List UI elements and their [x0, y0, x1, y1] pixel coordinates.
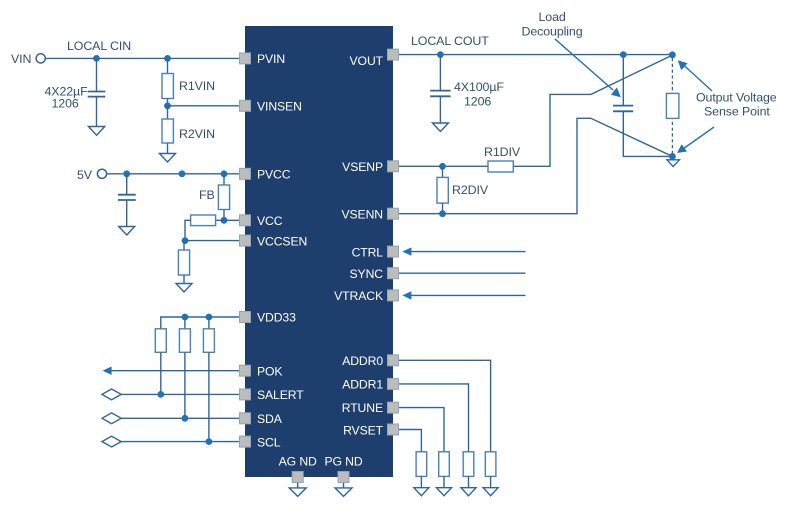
- svg-text:FB: FB: [199, 188, 215, 202]
- svg-text:1206: 1206: [464, 95, 491, 109]
- wire VOUT rail: [398, 54, 672, 56]
- svg-text:SDA: SDA: [257, 412, 283, 426]
- pin VSENN: [388, 208, 399, 219]
- capacitor CIN 4X22uF: [88, 92, 106, 97]
- arrow Load Decoupling: [555, 39, 613, 90]
- node junction SCL: [206, 438, 213, 445]
- wire ADDR0: [398, 360, 491, 452]
- node junction FB top: [221, 170, 228, 177]
- arrowhead CTRL: [402, 247, 411, 255]
- pullup resistor 2: [179, 329, 190, 353]
- pin VDD33: [240, 312, 251, 323]
- ground RVSET: [414, 488, 429, 496]
- pin VINSEN: [240, 100, 251, 111]
- pin SALERT: [240, 389, 251, 400]
- pin VCCSEN: [240, 235, 251, 246]
- svg-text:SYNC: SYNC: [350, 267, 384, 281]
- svg-text:LOCAL CIN: LOCAL CIN: [67, 39, 131, 53]
- svg-text:Output Voltage: Output Voltage: [696, 91, 777, 105]
- svg-text:PVCC: PVCC: [257, 168, 291, 182]
- wire R2DIV body top: [442, 166, 444, 177]
- ground AG ND: [289, 488, 306, 497]
- svg-text:RTUNE: RTUNE: [342, 401, 383, 415]
- svg-text:ADDR0: ADDR0: [342, 354, 383, 368]
- wire cap CIN stem bottom: [96, 97, 98, 127]
- svg-text:VTRACK: VTRACK: [334, 289, 383, 303]
- ground below CIN: [89, 127, 105, 136]
- svg-text:VIN: VIN: [11, 52, 31, 66]
- IC U1 body: [245, 26, 393, 477]
- wire to R1VIN: [167, 58, 169, 73]
- svg-text:Load: Load: [539, 10, 566, 24]
- node junction SDA: [182, 415, 189, 422]
- wire to R2VIN: [167, 106, 169, 119]
- pin VSENP: [388, 161, 399, 172]
- arrow sense top: [683, 65, 712, 92]
- resistor R2DIV: [437, 177, 448, 203]
- wire RVSET: [398, 430, 421, 452]
- pin SCL: [240, 436, 251, 447]
- wire ADDR0 resistor to ground: [490, 476, 492, 487]
- wire to resistor 2: [184, 317, 186, 329]
- wire VINSEN: [168, 105, 241, 107]
- ferrite bead FB: [218, 185, 229, 210]
- wire VSENN to sense bottom: [398, 118, 672, 213]
- wire RTUNE: [398, 408, 444, 452]
- wire R2VIN to ground: [167, 143, 169, 154]
- resistor ADDR0 pulldown: [485, 452, 496, 477]
- node junction SALERT: [157, 391, 164, 398]
- wire load decoupling stem: [622, 55, 624, 106]
- wire cap CIN stem top: [96, 58, 98, 91]
- pin PVIN: [240, 53, 251, 64]
- resistor ADDR1 pulldown: [463, 452, 474, 477]
- pin VOUT: [388, 49, 399, 60]
- node junction VCCSEN: [182, 237, 189, 244]
- ground below 5V cap: [119, 227, 135, 236]
- node junction load decoupling: [620, 51, 627, 58]
- svg-text:VCCSEN: VCCSEN: [257, 235, 307, 249]
- wire VCCSEN: [185, 240, 240, 242]
- ground below R2VIN: [160, 154, 176, 163]
- wire VCCSEN to resistor: [183, 241, 185, 250]
- wire AG ND to ground: [297, 483, 299, 488]
- pin POK: [240, 365, 251, 376]
- pin ADDR1: [388, 378, 399, 389]
- svg-text:R2VIN: R2VIN: [179, 127, 215, 141]
- svg-text:Sense Point: Sense Point: [704, 105, 770, 119]
- wire VCC resistor elbow: [185, 220, 191, 240]
- wire SALERT: [121, 393, 240, 395]
- node junction R2DIV top: [439, 163, 446, 170]
- capacitor 5V decoupling: [118, 195, 136, 200]
- pin SYNC: [388, 268, 399, 279]
- wire SCL: [121, 441, 240, 443]
- wire 5V cap stem: [126, 174, 128, 195]
- pin VCC: [240, 215, 251, 226]
- node junction on PVIN wire (cap branch): [93, 55, 100, 62]
- svg-text:SCL: SCL: [257, 436, 281, 450]
- node junction VDD33 r2: [182, 314, 189, 321]
- pin RTUNE: [388, 402, 399, 413]
- capacitor load decoupling: [613, 106, 633, 112]
- svg-text:VCC: VCC: [257, 214, 283, 228]
- wire VTRACK: [411, 294, 526, 296]
- connector circle 5V: [97, 169, 106, 178]
- pin PVCC: [240, 168, 251, 179]
- resistor RTUNE pulldown: [439, 452, 450, 477]
- wire FB bottom to VCC node: [223, 210, 225, 221]
- svg-text:5V: 5V: [77, 168, 93, 182]
- wire 5V to PVCC: [107, 173, 240, 175]
- pin SDA: [240, 413, 251, 424]
- wire POK: [107, 370, 240, 372]
- ground below VCCSEN resistor: [176, 284, 192, 293]
- svg-text:ADDR1: ADDR1: [342, 378, 383, 392]
- pin ADDR0: [388, 355, 399, 366]
- resistor R1VIN: [162, 74, 173, 99]
- svg-text:Decoupling: Decoupling: [522, 25, 583, 39]
- node junction VDD33 r3: [206, 314, 213, 321]
- wire RTUNE resistor to ground: [443, 476, 445, 487]
- svg-text:VSENN: VSENN: [342, 208, 384, 222]
- resistor R2VIN: [162, 119, 173, 143]
- node junction COUT: [437, 51, 444, 58]
- resistor load: [666, 93, 679, 118]
- svg-text:AG ND: AG ND: [279, 455, 317, 469]
- svg-text:POK: POK: [257, 365, 282, 379]
- svg-text:LOCAL COUT: LOCAL COUT: [411, 34, 489, 48]
- svg-text:VDD33: VDD33: [257, 311, 296, 325]
- wire SDA: [121, 417, 240, 419]
- wire ADDR1: [398, 384, 469, 452]
- svg-text:R1VIN: R1VIN: [179, 79, 215, 93]
- pin RVSET: [388, 424, 399, 435]
- wire VSENP to R1DIV: [398, 165, 488, 167]
- wire to ground: [183, 275, 185, 284]
- wire COUT to ground: [439, 96, 441, 123]
- connector diamond SALERT: [102, 389, 121, 400]
- wire to resistor 3: [208, 317, 210, 329]
- arrowhead POK: [103, 367, 112, 375]
- capacitor COUT 4X100uF: [430, 91, 450, 97]
- arrowhead VTRACK: [402, 291, 411, 299]
- wire FB top: [223, 174, 225, 185]
- pullup resistor 3: [203, 329, 214, 353]
- node sense bottom: [669, 153, 676, 160]
- svg-text:RVSET: RVSET: [343, 424, 384, 438]
- ground below COUT: [432, 123, 448, 132]
- ground below sense bottom: [667, 160, 680, 167]
- pin CTRL: [388, 246, 399, 257]
- connector diamond SDA: [102, 413, 121, 424]
- node junction VSENN: [439, 210, 446, 217]
- svg-text:1206: 1206: [52, 97, 79, 111]
- svg-text:PVIN: PVIN: [257, 52, 285, 66]
- svg-text:VINSEN: VINSEN: [257, 100, 302, 114]
- resistor RVSET pulldown: [416, 452, 427, 477]
- connector diamond SCL: [102, 436, 121, 447]
- wire VIN to PVIN: [46, 57, 241, 59]
- ground PG ND: [335, 488, 352, 497]
- node junction on PVIN wire (R1VIN branch): [164, 55, 171, 62]
- node sense top: [669, 51, 676, 58]
- wire 5V cap to ground: [126, 200, 128, 227]
- ground RTUNE: [437, 488, 452, 496]
- node junction 5V cap branch: [123, 170, 130, 177]
- svg-text:4X100µF: 4X100µF: [454, 80, 504, 94]
- svg-text:VSENP: VSENP: [342, 160, 383, 174]
- connector circle VIN: [36, 54, 45, 63]
- wire load decoupling bottom: [623, 111, 672, 156]
- resistor VCCSEN pulldown: [178, 250, 189, 275]
- wire resistor1 to SALERT: [160, 352, 162, 394]
- wire dashed sense line: [671, 58, 673, 153]
- svg-text:R1DIV: R1DIV: [484, 145, 521, 159]
- svg-text:SALERT: SALERT: [257, 388, 304, 402]
- svg-text:CTRL: CTRL: [352, 246, 384, 260]
- svg-text:PG ND: PG ND: [324, 455, 362, 469]
- wire RVSET resistor to ground: [420, 476, 422, 487]
- resistor on VCC line: [191, 215, 216, 226]
- resistor R1DIV: [488, 161, 513, 172]
- pin VTRACK: [388, 290, 399, 301]
- arrow sense bottom: [683, 127, 714, 149]
- ground ADDR1: [461, 488, 476, 496]
- svg-text:R2DIV: R2DIV: [452, 183, 489, 197]
- node junction VINSEN: [164, 102, 171, 109]
- wire resistor2 to SDA: [184, 352, 186, 418]
- wire SYNC: [398, 272, 526, 274]
- wire PG ND to ground: [343, 483, 345, 488]
- wire R1DIV to sense top: [513, 55, 672, 166]
- wire VDD33: [161, 317, 240, 329]
- pin AG ND: [292, 472, 303, 483]
- pullup resistor 1: [155, 329, 166, 353]
- svg-text:VOUT: VOUT: [350, 54, 384, 68]
- wire COUT stem: [439, 55, 441, 91]
- node junction VCC: [221, 217, 228, 224]
- wire R1VIN to VINSEN node: [167, 99, 169, 111]
- wire resistor3 to SCL: [208, 352, 210, 441]
- ground ADDR0: [483, 488, 498, 496]
- wire ADDR1 resistor to ground: [468, 476, 470, 487]
- wire CTRL: [411, 251, 526, 253]
- node junction 5V mid: [179, 170, 186, 177]
- wire R2DIV bottom: [442, 203, 444, 214]
- wire VCC pin to resistor: [216, 219, 240, 221]
- pin PG ND: [338, 472, 349, 483]
